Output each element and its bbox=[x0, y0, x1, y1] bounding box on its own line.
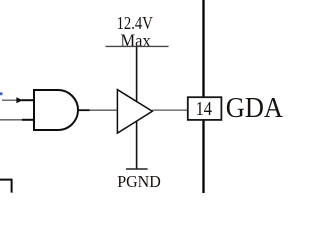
svg-text:14: 14 bbox=[196, 98, 212, 120]
wire: bottom input thin segment bbox=[0, 119, 23, 121]
arrowhead on top input wire bbox=[16, 97, 22, 103]
buffer (driver) triangle bbox=[117, 90, 152, 134]
supply rail bar bbox=[106, 45, 169, 47]
wire: AND output thin segment to buffer input bbox=[89, 109, 117, 111]
corner of next gate (clipped, bottom-left) bbox=[0, 180, 12, 193]
clipped blue link text at left edge bbox=[0, 92, 2, 95]
wire: buffer down to PGND bbox=[136, 120, 138, 169]
wire: supply rail down to buffer bbox=[136, 47, 138, 103]
pin box 14 bbox=[188, 97, 222, 120]
IC package boundary line bbox=[202, 0, 204, 193]
wire: bottom input thick segment into AND gate bbox=[22, 119, 35, 121]
wire: top input thin segment bbox=[2, 99, 17, 101]
svg-text:Max: Max bbox=[121, 30, 151, 50]
wire: buffer output to pin box bbox=[152, 109, 187, 111]
svg-text:PGND: PGND bbox=[117, 172, 161, 191]
ground bar bbox=[126, 168, 148, 170]
wire: top input thick segment into AND gate bbox=[22, 99, 35, 101]
AND gate U1 bbox=[34, 90, 78, 130]
svg-text:GDA: GDA bbox=[226, 93, 283, 124]
wire: AND output thick segment bbox=[78, 109, 90, 111]
